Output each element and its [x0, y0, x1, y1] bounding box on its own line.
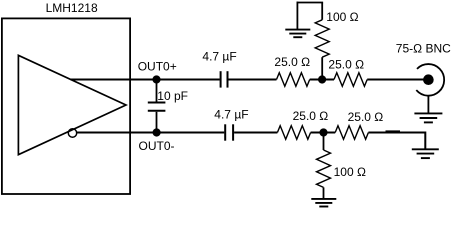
node OUT0+ junction dot [152, 75, 160, 83]
svg-text:4.7 µF: 4.7 µF [202, 50, 236, 64]
node top junction dot [318, 75, 326, 83]
svg-text:75-Ω BNC: 75-Ω BNC [396, 41, 451, 55]
svg-text:LMH1218: LMH1218 [46, 1, 98, 15]
connector 75-ohm BNC [416, 64, 444, 96]
wire BNC shield to ground [427, 96, 429, 114]
svg-text:100 Ω: 100 Ω [334, 165, 366, 179]
wire after bottom 4.7uF cap to first 25 ohm resistor [234, 132, 277, 134]
resistor 25.0 ohm bottom-left [277, 126, 310, 140]
ground top-left [285, 30, 310, 38]
svg-text:10 pF: 10 pF [157, 89, 188, 103]
svg-text:OUT0+: OUT0+ [138, 60, 177, 74]
resistor 100 ohm bottom (vertical) [317, 133, 331, 199]
svg-text:25.0 Ω: 25.0 Ω [274, 55, 310, 69]
resistor 100 ohm top (vertical) [315, 3, 329, 80]
inversion bubble on negative output [68, 129, 76, 137]
wire OUT0- from bubble to coupling cap [77, 132, 225, 134]
wire bottom between resistor1 and resistor2 [311, 132, 336, 134]
resistor 25.0 ohm bottom-right [335, 126, 368, 140]
wire top between resistor1 and resistor2 [310, 79, 334, 81]
svg-text:25.0 Ω: 25.0 Ω [348, 110, 384, 124]
wire after top 4.7uF cap to first 25 ohm resistor [229, 79, 277, 81]
ground bottom-right [412, 149, 439, 158]
svg-text:25.0 Ω: 25.0 Ω [328, 57, 364, 71]
op-amp buffer triangle U1 [18, 55, 126, 154]
wire down to top-left ground [296, 2, 298, 30]
wire from bottom resistor2 to right ground [368, 133, 425, 150]
wire OUT0+ from triangle to coupling cap [71, 79, 220, 81]
svg-text:OUT0-: OUT0- [139, 139, 175, 153]
IC box LMH1218 [2, 18, 130, 194]
resistor 25.0 ohm top-right [334, 73, 367, 87]
BNC center pin dot [423, 74, 434, 85]
node OUT0- junction dot [153, 128, 161, 136]
wire top to ground (horizontal) [297, 2, 324, 4]
ground BNC [414, 113, 442, 122]
wire from top resistor2 to BNC [367, 79, 426, 81]
capacitor C 4.7 uF bottom [225, 124, 233, 140]
ground bottom (under 100 ohm) [311, 199, 336, 207]
capacitor C 10 pF (between OUT0+ and OUT0-) [148, 80, 166, 133]
capacitor C 4.7 uF top [221, 71, 228, 87]
svg-text:100 Ω: 100 Ω [326, 10, 358, 24]
resistor 25.0 ohm top-left [277, 73, 310, 87]
svg-text:25.0 Ω: 25.0 Ω [293, 109, 329, 123]
wire overlap segment [386, 130, 401, 132]
svg-text:4.7 µF: 4.7 µF [214, 108, 248, 122]
node bottom junction dot [319, 128, 327, 136]
